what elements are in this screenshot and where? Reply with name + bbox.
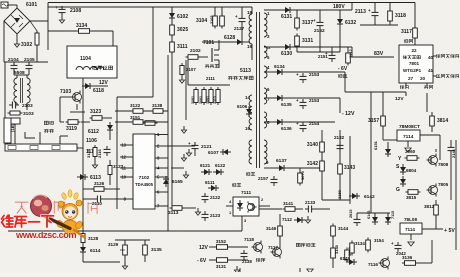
- svg-text:14: 14: [245, 95, 250, 100]
- svg-text:7801: 7801: [409, 61, 420, 66]
- svg-text:3117: 3117: [401, 29, 412, 35]
- svg-text:TDA4505: TDA4505: [135, 182, 154, 187]
- svg-text:3091: 3091: [199, 96, 203, 104]
- svg-text:16: 16: [245, 126, 250, 131]
- svg-text:6804: 6804: [406, 168, 417, 173]
- svg-text:6111: 6111: [205, 180, 215, 185]
- svg-text:20: 20: [420, 76, 426, 81]
- svg-text:5508: 5508: [14, 70, 25, 76]
- svg-text:+: +: [188, 141, 191, 146]
- svg-text:2141: 2141: [451, 148, 456, 158]
- svg-text:27: 27: [408, 76, 414, 81]
- svg-text:3105: 3105: [210, 16, 214, 24]
- svg-text:3140: 3140: [307, 142, 318, 148]
- svg-text:7112: 7112: [282, 217, 292, 222]
- svg-text:3119: 3119: [66, 126, 77, 132]
- svg-text:WTG2P1: WTG2P1: [403, 68, 422, 73]
- svg-text:3118: 3118: [395, 13, 406, 19]
- svg-text:2153: 2153: [309, 98, 320, 103]
- svg-text:2123: 2123: [210, 213, 221, 218]
- svg-text:2108: 2108: [70, 8, 81, 14]
- svg-text:12V: 12V: [395, 96, 404, 102]
- svg-text:12V: 12V: [199, 245, 209, 251]
- svg-text:6142: 6142: [364, 194, 375, 200]
- svg-text:3107: 3107: [186, 67, 196, 72]
- svg-text:2154: 2154: [309, 121, 320, 126]
- svg-text:G: G: [396, 187, 400, 193]
- svg-text:1104: 1104: [80, 56, 91, 62]
- svg-text:6136: 6136: [281, 126, 292, 132]
- svg-text:7805: 7805: [438, 182, 449, 187]
- svg-text:6106: 6106: [237, 104, 248, 109]
- svg-text:6114: 6114: [90, 248, 101, 254]
- svg-text:- 6V: - 6V: [197, 258, 207, 264]
- svg-text:180V: 180V: [333, 4, 345, 10]
- svg-text:3145: 3145: [334, 244, 339, 254]
- svg-text:3812: 3812: [424, 204, 435, 209]
- svg-text:41: 41: [428, 68, 434, 73]
- svg-text:6132: 6132: [345, 20, 356, 26]
- svg-text:2132: 2132: [334, 135, 345, 140]
- svg-text:3134: 3134: [355, 241, 365, 246]
- svg-text:3154: 3154: [374, 238, 384, 243]
- svg-text:7102: 7102: [139, 175, 150, 181]
- svg-text:83V: 83V: [374, 51, 384, 57]
- svg-text:40: 40: [428, 55, 434, 60]
- svg-text:12V: 12V: [99, 80, 109, 86]
- svg-text:3131: 3131: [216, 264, 227, 269]
- svg-text:1106: 1106: [86, 138, 97, 144]
- svg-text:+: +: [235, 14, 238, 19]
- svg-text:2116: 2116: [97, 149, 102, 158]
- svg-text:3081: 3081: [191, 96, 195, 104]
- svg-text:2113: 2113: [355, 9, 366, 15]
- svg-text:78M08CT: 78M08CT: [399, 124, 420, 130]
- svg-text:3127: 3127: [113, 164, 124, 169]
- svg-text:3815: 3815: [406, 195, 417, 200]
- svg-text:3102: 3102: [21, 42, 32, 48]
- svg-text:+: +: [296, 98, 299, 103]
- svg-text:+: +: [391, 241, 394, 246]
- svg-text:2151: 2151: [318, 54, 328, 59]
- svg-text:6137: 6137: [276, 158, 287, 164]
- svg-text:78L08: 78L08: [404, 217, 417, 222]
- svg-text:2103: 2103: [22, 103, 33, 109]
- svg-text:3150: 3150: [337, 189, 342, 199]
- svg-text:6148: 6148: [340, 256, 350, 261]
- svg-text:3151: 3151: [130, 115, 141, 120]
- svg-text:2138: 2138: [242, 259, 252, 264]
- svg-text:6118: 6118: [93, 88, 104, 94]
- svg-text:- 6V: - 6V: [338, 66, 348, 72]
- svg-text:6143: 6143: [367, 211, 371, 219]
- svg-text:22: 22: [411, 48, 417, 53]
- svg-text:7115: 7115: [391, 211, 395, 219]
- svg-text:6128: 6128: [224, 35, 235, 41]
- svg-text:+: +: [313, 18, 316, 23]
- svg-text:3123: 3123: [90, 109, 101, 115]
- svg-text:12: 12: [266, 45, 271, 50]
- svg-text:3136: 3136: [402, 255, 413, 260]
- svg-text:+: +: [55, 5, 58, 10]
- svg-text:2157: 2157: [258, 176, 269, 181]
- svg-text:6131: 6131: [281, 14, 292, 20]
- svg-text:2815: 2815: [349, 210, 353, 218]
- svg-text:2111: 2111: [206, 76, 216, 81]
- svg-text:3111: 3111: [177, 44, 188, 50]
- svg-text:3146: 3146: [266, 226, 277, 231]
- svg-text:3113: 3113: [168, 210, 179, 216]
- svg-text:3135: 3135: [151, 247, 162, 253]
- svg-text:7117: 7117: [268, 245, 278, 250]
- svg-text:3814: 3814: [437, 118, 448, 124]
- svg-text:www.dzsc.com: www.dzsc.com: [15, 230, 76, 240]
- svg-text:7114: 7114: [405, 227, 415, 232]
- svg-text:3126: 3126: [94, 181, 105, 186]
- svg-text:+ 5V: + 5V: [444, 228, 455, 234]
- svg-text:3144: 3144: [338, 226, 349, 231]
- svg-text:3152: 3152: [216, 239, 227, 244]
- svg-text:3060: 3060: [405, 149, 416, 154]
- svg-text:6122: 6122: [215, 163, 226, 168]
- svg-text:3103: 3103: [23, 111, 34, 117]
- svg-text:- 12V: - 12V: [342, 111, 355, 117]
- svg-text:7808: 7808: [438, 162, 449, 167]
- svg-text:3142: 3142: [307, 161, 318, 167]
- svg-text:6102: 6102: [177, 14, 188, 20]
- svg-text:2102: 2102: [190, 48, 201, 54]
- svg-text:+: +: [296, 72, 299, 77]
- svg-text:3134: 3134: [76, 23, 87, 29]
- svg-text:7114: 7114: [403, 134, 414, 140]
- svg-text:6112: 6112: [88, 129, 99, 135]
- svg-text:7118: 7118: [244, 237, 254, 242]
- svg-text:3122: 3122: [130, 103, 141, 108]
- svg-text:1091: 1091: [206, 96, 210, 104]
- svg-text:7103: 7103: [60, 89, 71, 95]
- svg-text:3104: 3104: [196, 18, 207, 24]
- svg-text:+: +: [368, 8, 371, 13]
- svg-text:+: +: [296, 121, 299, 126]
- svg-text:6101: 6101: [26, 2, 37, 8]
- svg-text:3025: 3025: [177, 27, 188, 33]
- svg-text:5113: 5113: [240, 68, 251, 74]
- svg-text:7101: 7101: [203, 40, 214, 46]
- svg-text:2121: 2121: [201, 144, 212, 150]
- svg-text:6151: 6151: [373, 140, 378, 150]
- svg-text:(1B): (1B): [10, 123, 15, 132]
- svg-text:2127: 2127: [234, 26, 245, 31]
- svg-text:2122: 2122: [210, 195, 221, 200]
- svg-text:3141: 3141: [283, 201, 294, 206]
- svg-text:2133: 2133: [305, 200, 316, 205]
- svg-text:3070: 3070: [300, 170, 305, 180]
- svg-text:3131: 3131: [302, 38, 313, 44]
- svg-text:2153: 2153: [309, 72, 320, 77]
- svg-text:3125: 3125: [86, 148, 91, 158]
- svg-text:7116: 7116: [368, 262, 378, 267]
- svg-text:6135: 6135: [281, 102, 292, 108]
- svg-text:3113: 3113: [213, 96, 217, 104]
- svg-text:6107: 6107: [208, 150, 219, 156]
- svg-text:6134: 6134: [274, 64, 285, 70]
- svg-text:7111: 7111: [241, 190, 251, 196]
- svg-text:6165: 6165: [172, 179, 183, 185]
- svg-text:6121: 6121: [200, 163, 211, 168]
- svg-text:3138: 3138: [152, 103, 163, 108]
- svg-text:3157: 3157: [368, 118, 379, 124]
- svg-text:3129: 3129: [108, 242, 119, 247]
- svg-text:3128: 3128: [88, 236, 99, 241]
- svg-text:6130: 6130: [281, 51, 292, 57]
- svg-text:3137: 3137: [302, 20, 313, 26]
- svg-text:2152: 2152: [314, 28, 325, 34]
